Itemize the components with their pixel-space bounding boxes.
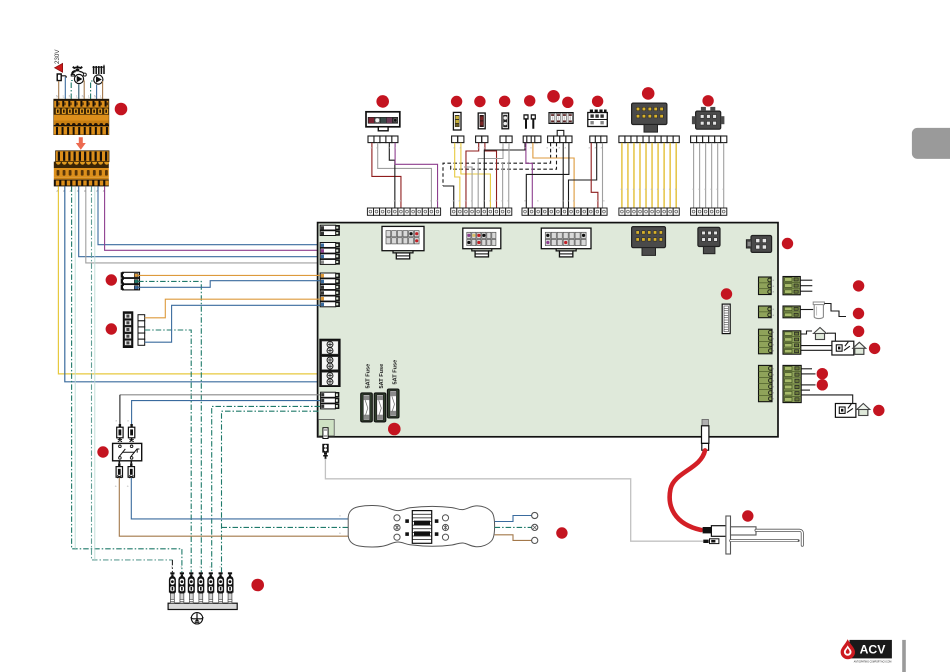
svg-text:a: a <box>558 146 560 150</box>
wire yellow J5b <box>461 143 491 210</box>
faucet icon DHW <box>74 67 82 68</box>
callout dot 1 <box>115 103 128 116</box>
wire gray PCB-B4 to relay <box>120 394 320 396</box>
pale N line <box>74 186 76 548</box>
wire gray sense PCB to electrode <box>325 459 703 541</box>
connector J5 (yellow) <box>453 112 461 130</box>
svg-text:a: a <box>471 199 473 203</box>
tiny wire labels <box>115 146 725 569</box>
svg-text:a: a <box>393 199 395 203</box>
wire orange F1 to PCB <box>138 274 320 276</box>
svg-text:a: a <box>190 565 192 569</box>
svg-text:a: a <box>459 199 461 203</box>
svg-text:a: a <box>546 146 548 150</box>
wire blue pump2 bottom to X1 <box>96 85 98 99</box>
wire P2 to cylinder <box>800 304 846 317</box>
callout dot 23 <box>106 323 117 334</box>
svg-text:a: a <box>530 146 532 150</box>
svg-text:a: a <box>376 146 378 150</box>
terminal pin labels right edge <box>773 278 775 401</box>
PCB connector G1 <box>320 225 339 235</box>
arrow plug-in direction <box>76 137 86 150</box>
wire brown relay to capsule <box>119 478 348 536</box>
PCB green terminal T2 <box>759 306 772 318</box>
pin labels above X1 <box>56 95 102 99</box>
svg-text:a: a <box>692 187 694 191</box>
svg-text:a: a <box>573 199 575 203</box>
wire purple X2 to PCB G2 pin2 <box>105 186 320 250</box>
svg-text:a: a <box>651 187 653 191</box>
electrode flange <box>726 516 731 554</box>
svg-text:a: a <box>537 199 539 203</box>
ground post 7 <box>228 591 233 604</box>
wire black long <box>484 143 525 210</box>
svg-text:a: a <box>639 187 641 191</box>
svg-text:a: a <box>115 484 117 488</box>
wire P4 to RT2 <box>801 395 853 404</box>
svg-text:ACV: ACV <box>860 643 887 657</box>
PCB screw terminal TB3 <box>319 339 340 387</box>
dashed wire B <box>451 143 557 169</box>
fork connector J8 <box>523 114 528 129</box>
svg-text:a: a <box>465 199 467 203</box>
room thermostat RT1 <box>832 341 854 355</box>
connector J6 (dark red) <box>478 113 485 129</box>
svg-text:a: a <box>698 187 700 191</box>
callout dot 6 <box>524 95 535 106</box>
wire teal capsule right <box>495 526 532 528</box>
wire gray X2 to PCB G2 pin4 <box>86 186 320 263</box>
wire teal PCB-B4 to gnd5 <box>212 406 320 572</box>
pump P2 <box>94 75 103 84</box>
svg-text:a: a <box>127 484 129 488</box>
svg-text:a: a <box>483 199 485 203</box>
relay terminal bottom-left <box>116 463 122 477</box>
header under X10 <box>619 136 679 143</box>
wire gray short <box>502 162 504 210</box>
svg-text:a: a <box>171 565 173 569</box>
callout dot 27 <box>742 510 753 521</box>
callout dot 17 <box>853 326 864 337</box>
wire yellow X2 to TB3 <box>58 186 320 374</box>
ground post 2 <box>179 591 184 604</box>
ground spade 7 <box>227 572 234 592</box>
capsule screws left <box>394 515 400 541</box>
fuse F2 5AT <box>374 393 386 422</box>
PCB connector G2 <box>320 243 339 265</box>
connector J10 <box>588 110 608 127</box>
wires P3 to RT1 <box>801 346 832 351</box>
ground spade 3 <box>188 572 195 592</box>
svg-text:a: a <box>603 199 605 203</box>
callout dot 21 <box>873 405 884 416</box>
wire P4 stub 3 <box>801 384 815 386</box>
svg-text:5AT Fuse: 5AT Fuse <box>366 364 372 389</box>
svg-text:a: a <box>722 187 724 191</box>
svg-text:a: a <box>180 565 182 569</box>
svg-text:a: a <box>115 419 117 423</box>
right edge gray tab <box>912 128 950 159</box>
PCB connector D1 (10-pin) <box>632 227 666 256</box>
fuse F3 5AT <box>387 389 399 418</box>
wire blue PCB-B4 to relay <box>132 401 320 424</box>
wire black J13 <box>389 143 395 210</box>
gray wire bundle X6 <box>694 143 724 213</box>
callout dot 7 <box>547 90 560 103</box>
wire teal-dash X2 down-left <box>72 186 182 572</box>
svg-text:a: a <box>716 187 718 191</box>
warning triangle 230V <box>55 63 63 72</box>
ignition cable (red) <box>670 450 705 530</box>
faucet icon small (drain) <box>57 74 61 81</box>
wire gray J7b <box>508 143 510 210</box>
plug P1 <box>783 277 800 295</box>
svg-text:a: a <box>453 146 455 150</box>
sense spade <box>703 539 719 544</box>
svg-text:a: a <box>601 146 603 150</box>
svg-text:5AT Fuse: 5AT Fuse <box>392 360 398 385</box>
relay terminal top-right <box>128 424 134 438</box>
wire orange fork2 <box>533 143 574 210</box>
wire blue F2 to PCB <box>145 305 320 342</box>
terminal block X2 (orange, plugged) <box>54 151 109 187</box>
wire blue X2 to TB3 <box>65 186 320 381</box>
callout dot 14 (fuses) <box>388 423 401 436</box>
svg-text:a: a <box>508 146 510 150</box>
PCB connector W1 <box>382 226 424 259</box>
wire teal-dash 2 X2 down-left <box>92 186 173 560</box>
callout dot 25 <box>251 579 264 592</box>
svg-text:a: a <box>507 199 509 203</box>
callout dot 5 <box>499 96 510 107</box>
electrode rod upper <box>756 530 802 545</box>
wire teal-dash pump1 loop to X1 <box>71 81 74 100</box>
wire black J10b <box>569 143 597 210</box>
svg-text:a: a <box>710 187 712 191</box>
wire P4 stub 4 <box>801 389 810 391</box>
earth fuse on notch <box>323 428 328 439</box>
ground spade 1 <box>169 572 176 592</box>
yellow wire bundle X10 <box>622 143 676 213</box>
callout dot 8 <box>562 97 573 108</box>
svg-text:a: a <box>633 187 635 191</box>
svg-text:230V: 230V <box>54 49 61 64</box>
wire brown faucet-small to X1 <box>58 81 60 99</box>
svg-text:a: a <box>595 146 597 150</box>
callout dot 4 <box>474 96 485 107</box>
svg-text:a: a <box>704 187 706 191</box>
svg-text:a: a <box>502 146 504 150</box>
PCB corner notch <box>319 419 335 436</box>
relay K1 box <box>113 443 142 460</box>
svg-text:a: a <box>371 146 373 150</box>
wire purple J13 <box>395 143 437 210</box>
wires P1 stubs <box>800 280 812 291</box>
svg-text:a: a <box>621 187 623 191</box>
ring terminal 1 <box>532 512 538 518</box>
svg-text:a: a <box>663 187 665 191</box>
svg-text:a: a <box>524 146 526 150</box>
wire teal F1 down <box>138 281 201 572</box>
outdoor sensor house icon <box>814 328 827 340</box>
earth symbol <box>191 613 204 624</box>
header under J5 <box>452 136 464 143</box>
header under X6 <box>691 136 727 143</box>
svg-text:a: a <box>127 419 129 423</box>
terminal strip 71004 <box>619 208 679 215</box>
wire blue relay to capsule <box>131 478 348 519</box>
callout dot 20 <box>817 379 828 390</box>
ground post 6 <box>218 591 223 604</box>
wire black F4c <box>562 143 564 210</box>
house icon 2 <box>853 342 866 354</box>
electrode rod lower <box>731 539 799 542</box>
wire orange F2 to PCB <box>145 299 320 318</box>
dashed wire C (solid tail) <box>443 186 454 210</box>
plug P2 <box>783 306 800 318</box>
relay terminal top-left <box>117 424 123 438</box>
wire P3 to house <box>801 331 836 341</box>
ignition outlet on PCB <box>702 419 709 450</box>
connector J7 (white pins) <box>502 113 509 129</box>
radiator icon <box>92 65 104 74</box>
wire brown pump2 right to X1 <box>102 81 104 99</box>
ACV logo box <box>850 640 892 659</box>
terminal block X1 (orange, unplugged) <box>54 99 109 134</box>
ACV flame drop <box>841 639 855 659</box>
callout dot 16 <box>853 308 864 319</box>
wire brown capsule right <box>495 535 532 541</box>
wire gray J7a <box>478 143 503 210</box>
room thermostat RT2 <box>835 404 856 418</box>
headers under forks <box>523 136 533 143</box>
cylinder sensor icon <box>813 302 824 319</box>
svg-text:a: a <box>669 187 671 191</box>
house icon 3 <box>857 404 870 416</box>
pin labels below X2 <box>57 189 105 193</box>
svg-text:a: a <box>565 146 567 150</box>
svg-text:a: a <box>430 199 432 203</box>
svg-text:a: a <box>627 187 629 191</box>
svg-text:L: L <box>88 95 90 99</box>
wire black F4d <box>526 143 569 210</box>
svg-text:L: L <box>100 95 102 99</box>
svg-text:L: L <box>63 95 65 99</box>
svg-text:a: a <box>400 199 402 203</box>
svg-text:a: a <box>199 565 201 569</box>
plug P3 <box>783 331 801 354</box>
header under J7 <box>500 136 512 143</box>
PCB vertical strip connector <box>722 304 730 334</box>
display connector J13 <box>366 112 400 131</box>
connector F2 (5-way) <box>123 311 145 348</box>
wire darkred J13 <box>372 143 401 210</box>
svg-text:a: a <box>645 187 647 191</box>
svg-text:a: a <box>484 146 486 150</box>
svg-text:a: a <box>339 531 341 535</box>
connector X6 (6-pin) <box>692 107 725 129</box>
svg-text:a: a <box>588 146 590 150</box>
terminal strip 71005 <box>691 208 727 215</box>
wire dark pump1 bottom to X1 <box>78 84 80 99</box>
svg-text:a: a <box>452 199 454 203</box>
ground bar 71017 <box>168 603 237 609</box>
ground spade 6 <box>217 572 224 592</box>
dashed wire A <box>443 143 551 186</box>
wire darkred J6a <box>466 143 479 210</box>
svg-text:a: a <box>552 146 554 150</box>
svg-text:L: L <box>76 95 78 99</box>
svg-text:a: a <box>567 199 569 203</box>
electrode ferrule <box>703 527 712 533</box>
terminal strip 71002 <box>451 208 512 215</box>
callout dot 13 (on PCB) <box>721 288 732 299</box>
ground spade 5 <box>207 572 214 592</box>
wire darkred J10a <box>591 143 598 210</box>
plug P4 <box>783 365 801 402</box>
wire blue F1 to PCB <box>138 281 320 288</box>
gray bar bottom right <box>902 640 906 672</box>
callout dot 3 <box>451 96 462 107</box>
svg-text:a: a <box>657 187 659 191</box>
svg-text:ANTICIPATING COMFORT ACV.COM: ANTICIPATING COMFORT ACV.COM <box>854 659 892 663</box>
callout dot 22 <box>106 274 117 285</box>
PCB green terminal T3 <box>759 329 773 354</box>
wire yellow J5a <box>455 143 460 210</box>
svg-text:a: a <box>596 199 598 203</box>
ground spade 2 <box>178 572 185 592</box>
connector F1 (3-way) <box>121 272 139 290</box>
electrode boot <box>711 526 727 537</box>
wire blue to X1 <box>64 77 66 99</box>
wire teal F2 down <box>145 330 192 572</box>
capsule center connector <box>405 511 438 544</box>
capsule harness body <box>348 506 494 548</box>
svg-text:a: a <box>562 199 564 203</box>
wire gray J10c <box>602 143 604 210</box>
PCB connector D3 (4-pin) <box>746 236 771 253</box>
wires P4 stubs <box>801 369 815 374</box>
wire teal PCB edge to capsule/gnd6 <box>222 411 349 572</box>
ground post 4 <box>198 591 203 604</box>
callout dot 15 <box>853 280 864 291</box>
wire brown pump1 right to X1 <box>83 81 86 100</box>
wire black dash to gnd post1 <box>171 560 173 572</box>
callout dot 2 <box>376 95 389 108</box>
capsule screws right <box>442 515 448 541</box>
wire blue X2 to PCB G2 pin3 <box>79 186 320 256</box>
callout dot 9 <box>592 96 603 107</box>
svg-text:5AT Fuse: 5AT Fuse <box>379 364 385 389</box>
earth spade below PCB <box>322 444 328 459</box>
svg-text:a: a <box>339 514 341 518</box>
capsule earth screw right <box>442 524 448 531</box>
PCB main board MCBA <box>318 223 778 437</box>
wire gray filler c4 <box>464 167 472 210</box>
fuse F1 5AT <box>361 393 373 422</box>
svg-text:a: a <box>394 146 396 150</box>
terminal strip 71001 <box>367 208 440 215</box>
ground post 3 <box>189 591 194 604</box>
svg-text:a: a <box>495 199 497 203</box>
callout dot 18 <box>869 343 880 354</box>
callout dot 11 <box>702 95 713 106</box>
connector X10 (10-pin) <box>632 103 667 132</box>
svg-text:a: a <box>675 187 677 191</box>
ground spade 4 <box>197 572 204 592</box>
callout dot 24 <box>97 446 108 457</box>
capsule earth screw left <box>394 524 400 531</box>
callout dot 19 <box>817 368 828 379</box>
electrode body <box>731 527 757 535</box>
fork connector J9 <box>531 114 536 129</box>
PCB connector G3 <box>320 273 339 307</box>
relay terminal tips top <box>118 438 134 442</box>
relay terminal tips bottom <box>117 461 133 478</box>
fuse block F4 <box>549 113 573 124</box>
header under F4 <box>557 130 564 136</box>
ground post 1 <box>170 591 175 604</box>
PCB connector W2 <box>463 228 501 257</box>
wire darkred J6b <box>485 143 497 210</box>
wire gray J13 <box>378 143 432 210</box>
svg-text:a: a <box>388 146 390 150</box>
svg-text:a: a <box>436 199 438 203</box>
callout dot 26 <box>556 527 567 538</box>
header under J6 <box>476 136 488 143</box>
PCB connector D2 (6-pin) <box>698 227 720 253</box>
svg-text:a: a <box>219 565 221 569</box>
PCB green terminal T4 <box>759 365 773 401</box>
relay terminal bottom-right <box>128 463 134 477</box>
PCB connector W3 <box>541 228 591 257</box>
svg-text:a: a <box>460 146 462 150</box>
wire teal-dash pump2 loop to X1 <box>91 81 94 99</box>
ground post 5 <box>208 591 213 604</box>
header under J13 <box>368 136 398 143</box>
ring terminal 2 (earth) <box>532 524 538 530</box>
wire blue X2 to PCB G2 pin1 <box>98 186 320 244</box>
svg-text:a: a <box>524 199 526 203</box>
header under J10 <box>590 136 607 143</box>
callout dot 12 <box>782 238 793 249</box>
wire purple fork1 <box>526 143 532 210</box>
pale N line 2 <box>94 186 96 560</box>
PCB connector B4 <box>321 392 339 409</box>
svg-text:a: a <box>209 565 211 569</box>
terminal strip 71003 <box>522 208 607 215</box>
wire blue capsule right <box>495 516 532 522</box>
ring terminal 3 <box>532 537 538 543</box>
callout dot 10 <box>642 87 655 100</box>
pump P1 <box>74 74 83 83</box>
PCB green terminal T1 <box>759 277 772 295</box>
svg-text:a: a <box>489 199 491 203</box>
svg-text:a: a <box>501 199 503 203</box>
svg-text:a: a <box>477 146 479 150</box>
